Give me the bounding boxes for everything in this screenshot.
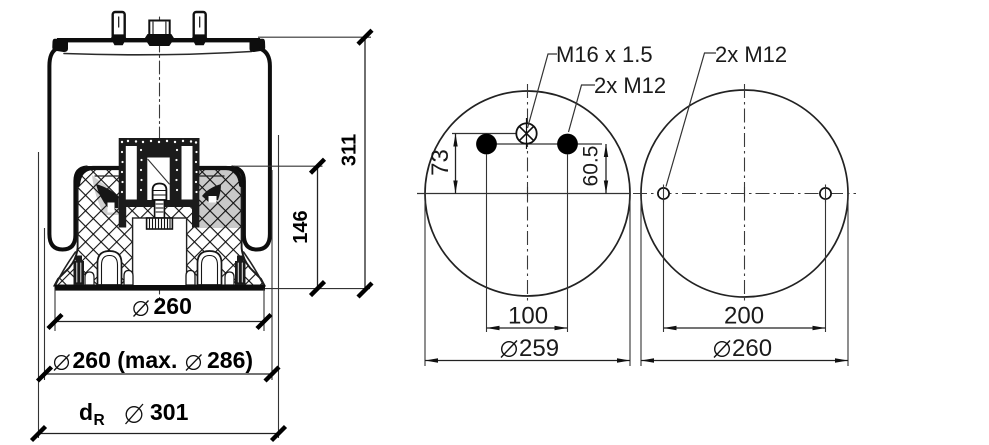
piston top contour right (thick) (200, 168, 241, 185)
dimension line dR 301 (32, 399, 286, 441)
stud pedestals under plate (113, 42, 125, 46)
clamp bolt right (235, 256, 246, 286)
M16 port symbol (516, 118, 536, 149)
stud right (M12) (194, 12, 206, 39)
svg-text:M16 x 1.5: M16 x 1.5 (556, 42, 653, 67)
base flare outline right (244, 252, 264, 284)
extension lines d260 (641, 196, 848, 366)
dimension d260 (641, 335, 848, 363)
extension line top (plate level) (258, 36, 371, 38)
dimension line d260 max286 (38, 347, 280, 381)
bellows top surface line (64, 52, 252, 55)
leader M16 x 1.5 (528, 54, 558, 128)
line through M16 centre (452, 133, 527, 135)
dimension 200 (664, 303, 826, 331)
serrated flange nut (147, 218, 173, 229)
svg-text:73: 73 (427, 149, 454, 176)
stud left (filled) (476, 134, 497, 155)
small arch right-outer (225, 272, 234, 285)
small arch left-inner (124, 271, 133, 286)
piston base plate (55, 285, 266, 291)
leader 2x M12 (top view) (569, 85, 596, 132)
dimension line d260 (48, 293, 271, 329)
wedge notch left (108, 203, 115, 213)
piston body (cross-hatched) (55, 167, 265, 286)
rubber shoulder shading right (grey, under hatch) (200, 169, 241, 228)
svg-text:R: R (94, 412, 105, 429)
svg-text:200: 200 (724, 303, 764, 330)
centre bolt dome (153, 184, 167, 201)
piston top inner line right (200, 175, 224, 177)
base flare outline left (56, 252, 76, 284)
diameter symbol (134, 302, 148, 316)
dimension 60.5 (580, 144, 609, 194)
piston top contour left (thick) (78, 168, 119, 185)
centerline of side view (159, 17, 161, 298)
cup skirt left (119, 207, 127, 228)
bottom view circle d260 (641, 90, 848, 297)
dimension 73 (427, 134, 458, 194)
svg-text:260: 260 (732, 335, 772, 362)
svg-text:286): 286) (207, 347, 253, 373)
bellows outer wall right + roll (233, 49, 270, 250)
svg-text:301: 301 (150, 399, 189, 425)
extension line base (146/311 ref) (265, 288, 370, 290)
vertical centreline (744, 84, 746, 302)
stud extension lines (487, 154, 568, 332)
piston top inner line left (95, 175, 119, 177)
piston body silhouette (white base) (55, 167, 265, 286)
section slash in recess (148, 160, 169, 185)
shoulder shadow hook left (96, 184, 119, 208)
bumper cup body (119, 138, 200, 207)
svg-text:100: 100 (508, 303, 548, 330)
rubber shoulder shading left (grey, under hatch) (92, 175, 119, 215)
cup skirt right (192, 207, 200, 228)
extension lines d259 (425, 196, 630, 366)
small arch left-outer (85, 272, 94, 285)
dimension 100 (487, 303, 568, 331)
vertical centreline (527, 84, 529, 302)
svg-text:259: 259 (519, 335, 559, 362)
svg-text:260: 260 (154, 293, 192, 319)
bead clamp right (250, 39, 266, 52)
stud flange bumps (111, 34, 127, 38)
bead clamp left (52, 39, 68, 52)
cup stipple dots (121, 140, 198, 193)
svg-text:60.5: 60.5 (580, 146, 603, 187)
centre tick (744, 187, 746, 201)
extension lines d260 (55, 289, 264, 331)
centre tick (527, 187, 529, 201)
cup centre recess (147, 158, 169, 201)
svg-text:260 (max.: 260 (max. (73, 347, 178, 373)
arch foot right (198, 251, 222, 285)
clamp bolt left (74, 256, 85, 286)
line through studs (487, 143, 602, 145)
cup slot left (126, 146, 137, 200)
dimension d259 (425, 335, 630, 363)
hole extension lines (664, 199, 826, 332)
shoulder shadow hook right (202, 184, 221, 202)
horizontal reference line (417, 193, 630, 195)
horizontal centreline (633, 193, 856, 195)
extension lines max286 (45, 170, 273, 380)
extension line piston top (146 ref) (234, 165, 323, 167)
stud right (filled) (557, 134, 578, 155)
piston centre recess (white column) (133, 218, 187, 286)
centre bolt shaft (155, 200, 165, 218)
dimension line 146 (290, 159, 325, 295)
air fitting M16 (149, 21, 169, 37)
svg-text:2x M12: 2x M12 (715, 42, 787, 67)
svg-text:146: 146 (290, 210, 312, 243)
svg-text:2x M12: 2x M12 (594, 73, 666, 98)
arch foot left (98, 251, 122, 285)
leader 2x M12 (bottom view) (666, 53, 716, 187)
svg-text:d: d (79, 399, 93, 425)
top plate (57, 38, 260, 42)
hole right M12 (820, 185, 831, 203)
hole left M12 (658, 185, 669, 203)
bellows outer wall left + roll (49, 49, 86, 250)
wedge notch right (209, 196, 217, 203)
top view circle d259 (425, 91, 630, 296)
svg-text:311: 311 (339, 134, 361, 166)
extension lines d301 (39, 135, 279, 438)
small arch right-inner (186, 271, 195, 286)
cup slot right (182, 146, 193, 200)
stud left (M12) (113, 12, 125, 39)
dimension line 311 (339, 30, 373, 297)
